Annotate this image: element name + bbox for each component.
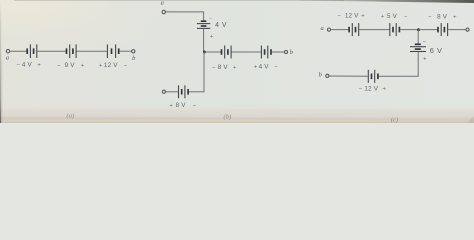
- svg-text:8 V: 8 V: [218, 64, 229, 71]
- wire 6V battery down to corner: [417, 52, 419, 77]
- svg-text:a: a: [320, 25, 323, 32]
- battery 12Vb (c) short plate right: [377, 74, 379, 80]
- svg-text:12 V: 12 V: [345, 13, 359, 20]
- left scan edge: fades in downward: [0, 0, 1, 1]
- terminal b (b): [284, 50, 287, 53]
- battery B2 9V (a) short plate left: [66, 48, 68, 54]
- junction node (c): [417, 28, 420, 31]
- wire junction down to 6V battery: [417, 30, 419, 44]
- battery 8V (c) tall plate: [440, 23, 442, 36]
- wire B2 to B3: [77, 50, 108, 52]
- wire B12b to terminal b: [329, 75, 368, 77]
- battery 4Vh (b) short plate: [264, 49, 266, 55]
- svg-text:+: +: [383, 87, 387, 93]
- battery 5V (c) tall plate right: [395, 23, 397, 36]
- battery 8V (c) short plate right: [443, 27, 445, 33]
- svg-text:9 V: 9 V: [65, 62, 76, 69]
- battery 6V (c) short plate top: [415, 43, 421, 45]
- battery B3 12V (a) short plate: [111, 48, 113, 54]
- battery 12V (c) short plate left: [348, 27, 350, 33]
- svg-text:a: a: [6, 55, 9, 62]
- battery 4V (b) short plate top: [201, 20, 207, 22]
- terminal b (c): [326, 74, 329, 77]
- battery 12V (c) tall plate right: [358, 23, 360, 36]
- value label +5V- (c top): [381, 13, 408, 20]
- battery B1 4V (a) short plate right: [33, 48, 35, 54]
- svg-text:6 V: 6 V: [430, 46, 443, 55]
- battery 8V (c) short plate left: [437, 27, 439, 33]
- wire corner to B12b: [378, 75, 418, 77]
- terminal bottom-left (b): [162, 90, 165, 93]
- value label -8V+ (b): [212, 64, 237, 71]
- svg-text:12 V: 12 V: [364, 86, 378, 93]
- battery 5V (c) short plate right: [398, 27, 400, 33]
- battery B2 9V (a) short plate right: [72, 48, 74, 54]
- bottom warm band: [0, 104, 474, 123]
- svg-text:−: −: [428, 14, 432, 20]
- wire a to corner: [166, 11, 204, 13]
- battery 4Vh (b) tall plate right: [267, 46, 269, 59]
- svg-text:4 V: 4 V: [259, 64, 270, 71]
- svg-text:4 V: 4 V: [22, 61, 33, 68]
- wire B3 to b: [119, 50, 132, 52]
- battery B3 12V (a) tall plate left: [106, 44, 108, 58]
- terminal a (a): [6, 50, 9, 53]
- battery 4Vh (b) tall plate left: [260, 46, 262, 59]
- svg-text:5 V: 5 V: [387, 13, 398, 20]
- svg-text:−: −: [57, 63, 61, 69]
- wire bottom corner to B8Vb: [189, 91, 205, 93]
- battery 8Vb (b) short plate mid: [181, 89, 183, 95]
- battery B1 4V (a) short plate left: [26, 48, 28, 54]
- page background: [0, 0, 474, 123]
- battery B3 12V (a) tall plate right: [115, 44, 117, 58]
- value label -12V+ (c top): [338, 13, 366, 20]
- svg-text:8 V: 8 V: [176, 102, 187, 109]
- battery 8V (b) tall plate: [224, 46, 226, 59]
- battery B2 9V (a) tall plate right: [75, 44, 77, 58]
- battery 6V (c) short plate mid: [415, 48, 421, 50]
- battery 8Vb (b) tall plate: [184, 85, 186, 98]
- svg-text:(c): (c): [391, 116, 399, 123]
- terminal a (b): [162, 10, 165, 13]
- battery 12V (c) tall plate: [351, 23, 353, 36]
- battery 8V (b) short plate right: [227, 49, 229, 55]
- battery 8Vb (b) tall plate left: [178, 85, 180, 98]
- svg-text:12 V: 12 V: [104, 62, 118, 69]
- wire junction to B8: [419, 29, 438, 31]
- top scan edge: faint left, darker toward right: [14, 0, 344, 2]
- battery B1 4V (a) tall plate right: [36, 44, 38, 58]
- battery B1 4V (a) tall plate: [29, 44, 31, 58]
- wire B8 to right terminal: [448, 29, 466, 31]
- wire B8V to B4V: [232, 51, 262, 53]
- wire corner down to battery 4V: [203, 12, 205, 22]
- value label -8V+ (c top): [428, 13, 457, 20]
- battery 4V (b) tall plate: [197, 23, 210, 25]
- battery 12Vb (c) tall plate left: [367, 70, 369, 83]
- battery B2 9V (a) tall plate: [69, 44, 71, 58]
- battery 5V (c) tall plate left: [389, 23, 391, 36]
- battery B3 12V (a) short plate right: [118, 48, 120, 54]
- value label -4V+: [17, 61, 42, 68]
- svg-text:−: −: [338, 14, 342, 20]
- battery 4V (b) short plate mid: [201, 25, 207, 27]
- value label -9V+: [57, 62, 85, 69]
- battery 5V (c) short plate: [392, 27, 394, 33]
- svg-text:8 V: 8 V: [437, 13, 448, 20]
- wire junction down to bottom corner: [203, 52, 205, 92]
- wire B5 to junction: [400, 29, 418, 31]
- wire B4V to b: [271, 51, 284, 53]
- value label +12V-: [99, 62, 128, 69]
- battery 6V (c) tall plate bottom: [410, 51, 426, 53]
- battery 8V (b) short plate left: [221, 49, 223, 55]
- svg-text:(b): (b): [224, 113, 232, 120]
- wire B8Vb to terminal: [166, 91, 179, 93]
- value label +4V- (b): [254, 64, 279, 71]
- svg-text:−: −: [423, 40, 427, 46]
- wire a to B12: [331, 29, 350, 31]
- wire junction to B8V: [204, 51, 221, 53]
- svg-text:a: a: [161, 0, 164, 7]
- terminal a (c): [327, 28, 330, 31]
- bottom-right page corner shadow: [467, 116, 474, 123]
- battery 8V (c) tall plate right: [447, 23, 449, 36]
- battery 8V (b) tall plate right: [230, 46, 232, 59]
- battery 4Vh (b) short plate right: [270, 49, 272, 55]
- terminal right (c): [466, 28, 469, 31]
- battery 6V (c) tall plate: [410, 46, 426, 48]
- wire 4V battery to junction: [203, 29, 205, 52]
- terminal b (a): [132, 50, 135, 53]
- svg-text:4 V: 4 V: [215, 22, 227, 29]
- junction node (b): [203, 51, 206, 54]
- battery 4V (b) tall plate bottom: [197, 27, 210, 29]
- value label +8V- (b): [169, 102, 196, 109]
- battery 12Vb (c) short plate mid: [371, 74, 373, 80]
- bottom shadow crease: [0, 117, 474, 120]
- battery 8Vb (b) short plate right: [187, 89, 189, 95]
- battery 12Vb (c) tall plate: [374, 70, 376, 83]
- svg-text:(a): (a): [67, 113, 75, 120]
- wire a to B1: [10, 50, 27, 52]
- wire B12 to B5: [359, 29, 389, 31]
- value label -12V+ (c bottom): [359, 86, 387, 93]
- wire B1 to B2: [37, 50, 66, 52]
- battery 12V (c) short plate right: [355, 27, 357, 33]
